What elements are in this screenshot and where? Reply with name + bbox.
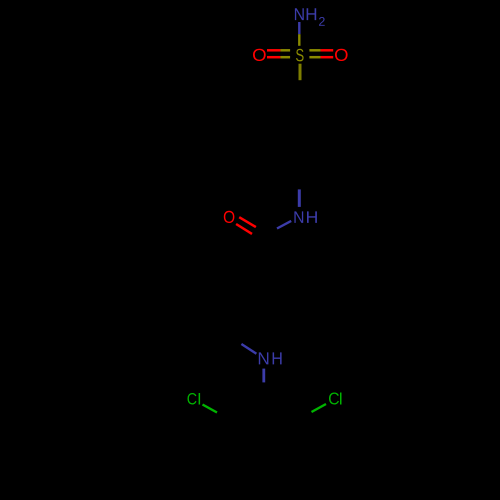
bond N6-C(aryl) (N half, blue vertical) (262, 369, 265, 383)
atom N1 subscript 2 (sulfonamide NH2) (319, 17, 325, 26)
bond S-C(aryl) (S half, olive) (299, 64, 302, 80)
atom N6 letter H (aniline NH) (273, 352, 282, 364)
bond S=O2 upper line (S half, olive) (280, 49, 290, 52)
atom N4 letter N (amide NH) (294, 211, 303, 223)
bond C=O5 lower line (O half, red) (236, 224, 252, 234)
atom Cl7 letter l (left chlorine) (199, 393, 201, 405)
atom N1 letter N (sulfonamide NH2) (295, 8, 304, 20)
bond C(aryl)-N6 (N half, blue diagonal) (241, 344, 256, 354)
atom N6 letter N (aniline NH) (259, 352, 269, 364)
atom O5 letter (carbonyl O) (224, 211, 235, 223)
bond N1-S (N half, blue) (298, 22, 300, 34)
bond S=O3 lower line (S half, olive) (309, 56, 320, 59)
bond C(aryl)-N4 (N half, blue) (298, 189, 301, 207)
bond C-Cl8 (Cl half, green) (312, 404, 327, 412)
bond S=O3 lower line (O half, red) (321, 56, 334, 59)
bond N4-C(carbonyl) (N half, blue) (277, 221, 291, 229)
atom S letter (296, 49, 304, 62)
bond C-Cl7 (Cl half, green) (203, 405, 218, 413)
bond S=O2 upper line (O half, red) (267, 49, 280, 52)
atom N1 letter H (sulfonamide NH2) (307, 8, 317, 20)
bond S=O3 upper line (S half, olive) (309, 49, 320, 52)
bond S=O3 upper line (O half, red) (321, 49, 334, 52)
bond S=O2 lower line (O half, red) (267, 56, 280, 59)
bond N1-S (S half, olive) (298, 34, 300, 46)
atom O3 letter (right sulfonyl O) (335, 49, 348, 61)
atom Cl7 letter C (left chlorine) (188, 393, 197, 405)
atom N4 letter H (amide NH) (307, 211, 317, 223)
bond C=O5 upper line (O half, red) (239, 217, 256, 227)
atom O2 letter (left sulfonyl O) (253, 49, 266, 61)
bond S=O2 lower line (S half, olive) (280, 56, 290, 59)
atom Cl8 letter C (right chlorine) (329, 393, 339, 405)
atom Cl8 letter l (right chlorine) (340, 393, 342, 405)
